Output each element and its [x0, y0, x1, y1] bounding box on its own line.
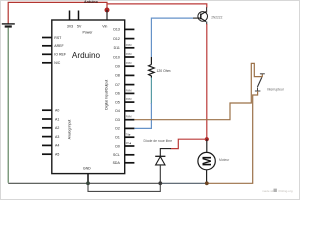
pin D11: [114, 44, 135, 50]
wire teal: resistor bottom to pin D2: [150, 78, 152, 105]
svg-text:SCL: SCL: [113, 153, 120, 157]
watermark made with fritzing.org: [262, 189, 293, 193]
svg-text:D6: D6: [115, 92, 120, 96]
pin 5V (top): [77, 11, 82, 29]
Arduino board U1 outline: [52, 20, 125, 174]
wire blue: resistor top to transistor base: [151, 18, 193, 57]
svg-text:PWM: PWM: [126, 53, 132, 56]
svg-text:IO REF: IO REF: [54, 53, 66, 57]
svg-text:120 Ohm: 120 Ohm: [157, 69, 171, 73]
svg-text:D13: D13: [113, 28, 119, 32]
wire brown: switch bottom to ground bus: [207, 91, 258, 183]
pin IO REF: [42, 53, 66, 57]
pin SCL: [113, 153, 134, 157]
wire battery- (green) down and along bottom to GND junction: [7, 28, 9, 183]
svg-text:D7: D7: [115, 83, 120, 87]
svg-text:D10: D10: [113, 55, 119, 59]
svg-text:RST: RST: [54, 36, 62, 40]
svg-text:D2: D2: [115, 127, 120, 131]
pin AREF: [42, 44, 64, 48]
svg-text:PWM: PWM: [126, 62, 132, 65]
junction node GND (dot): [86, 181, 90, 185]
svg-text:Arduino: Arduino: [72, 51, 101, 60]
junction node motor- (dot): [205, 181, 209, 185]
pin A1: [42, 117, 59, 121]
svg-text:SDA: SDA: [113, 161, 121, 165]
pin D3: [115, 116, 134, 122]
switch S1 (Interrupteur): [255, 74, 265, 91]
pin D13: [113, 28, 134, 32]
svg-text:A3: A3: [55, 135, 59, 139]
svg-text:N/C: N/C: [54, 61, 61, 65]
wire: base lead black: [193, 17, 201, 19]
pin D5: [115, 98, 134, 104]
svg-text:RX◀: RX◀: [126, 142, 131, 145]
svg-text:2N2222: 2N2222: [211, 15, 222, 19]
svg-text:A1: A1: [55, 117, 59, 121]
wire blue: to pin D2: [134, 103, 151, 128]
svg-text:D11: D11: [114, 46, 120, 50]
pin SDA: [113, 161, 135, 165]
wire: battery- along bottom to GND junction: [8, 182, 88, 184]
pin 3V3 (top): [67, 11, 73, 29]
junction node diode anode (dot): [158, 181, 162, 185]
svg-text:Digital Input/Output: Digital Input/Output: [104, 80, 108, 110]
pin D1: [115, 133, 134, 139]
wire ground bus: GND junction to diode junction: [88, 182, 160, 184]
pin A3: [42, 135, 59, 139]
svg-text:D5: D5: [115, 100, 120, 104]
svg-text:Analog Input: Analog Input: [68, 120, 72, 140]
svg-text:M: M: [200, 156, 214, 166]
svg-text:Interrupteur: Interrupteur: [267, 87, 285, 91]
svg-text:GND: GND: [83, 166, 91, 170]
svg-text:D9: D9: [115, 65, 120, 69]
svg-text:PWM: PWM: [126, 98, 132, 101]
svg-text:Moteur: Moteur: [219, 158, 230, 162]
wire black: step to diode top: [160, 149, 171, 156]
motor M1: [198, 139, 215, 183]
svg-text:D3: D3: [115, 118, 120, 122]
svg-text:A5: A5: [55, 153, 59, 157]
wire red: transistor emitter down to motor junction: [206, 24, 208, 139]
transistor Q1 2N2222: [198, 7, 208, 24]
pin D0: [115, 142, 134, 148]
pin A4: [42, 144, 59, 148]
pin D12: [113, 37, 134, 41]
diode D1 (freewheel): [155, 156, 165, 183]
resistor R1: [149, 57, 155, 78]
pin N/C: [42, 61, 61, 65]
pin D7: [115, 83, 134, 87]
svg-text:D1: D1: [115, 136, 120, 140]
pin D10: [113, 53, 134, 59]
svg-text:Diode de roue libre: Diode de roue libre: [144, 139, 173, 143]
svg-text:5V: 5V: [77, 24, 82, 28]
svg-text:Arduino: Arduino: [84, 0, 99, 4]
svg-text:PWM: PWM: [126, 44, 132, 47]
svg-text:Power: Power: [83, 30, 94, 34]
battery B1: [2, 24, 15, 27]
svg-text:PWM: PWM: [126, 116, 132, 119]
wire battery+ top red: battery to Vin junction: [8, 2, 107, 23]
wire red: Vin junction to transistor collector: [107, 4, 207, 8]
svg-text:A0: A0: [55, 109, 59, 113]
svg-text:D12: D12: [113, 37, 119, 41]
svg-text:D4: D4: [115, 109, 120, 113]
svg-text:D8: D8: [115, 74, 120, 78]
svg-text:A2: A2: [55, 126, 59, 130]
wire ground detour U: [88, 183, 160, 191]
wire brown: pin D3 to switch: [134, 63, 262, 119]
junction node Vin (red dot): [105, 8, 110, 13]
wire: Vin pin stub black: [106, 10, 108, 20]
svg-text:PWM: PWM: [126, 89, 132, 92]
pin A2: [42, 126, 59, 130]
svg-text:AREF: AREF: [54, 44, 63, 48]
svg-text:3V3: 3V3: [67, 24, 73, 28]
pin D6: [115, 89, 134, 95]
pin D4: [115, 109, 134, 113]
pin A0: [42, 109, 59, 113]
pin D8: [115, 74, 134, 78]
wire ground bus: diode junction to motor junction (blue-gray): [160, 182, 207, 184]
svg-text:TX▶: TX▶: [126, 133, 131, 136]
svg-text:D0: D0: [115, 144, 120, 148]
pin D9: [115, 62, 134, 68]
wire red: junction to diode cathode (step): [171, 139, 207, 148]
svg-text:Vin: Vin: [102, 24, 107, 28]
pin D2: [115, 127, 134, 131]
junction node motor+ (red dot): [205, 137, 209, 141]
pin GND (bottom): [83, 166, 91, 183]
pin A5: [42, 153, 59, 157]
pin RST: [42, 36, 62, 40]
svg-text:A4: A4: [55, 144, 59, 148]
svg-text:fritzing.org: fritzing.org: [279, 189, 293, 193]
